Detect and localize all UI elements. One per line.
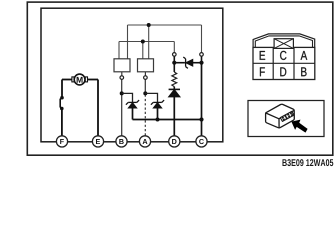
wire: A column circle to junction (144, 79, 146, 93)
terminal E (92, 136, 103, 147)
lower supply rail (119, 41, 174, 43)
wire: branch B junction to zener ZD1 (122, 93, 133, 102)
wire: node D stub circle to junction (173, 56, 175, 63)
wire: D junction to zener ZD3 (174, 62, 185, 64)
junction dot C column (199, 61, 203, 65)
zener diode ZD3 (183, 57, 192, 68)
junction on upper rail (147, 23, 151, 27)
wire: ZD1 to diode bus (132, 108, 134, 120)
wire: branch A junction to zener ZD2 (145, 93, 157, 102)
diode D1 (169, 89, 180, 96)
pin circle node D column (173, 53, 177, 57)
terminal B (116, 136, 127, 147)
upper supply rail (128, 24, 202, 26)
wire: F column lower (61, 109, 63, 136)
terminal D (169, 136, 180, 147)
resistor R (172, 72, 177, 87)
pin letter B (301, 67, 306, 76)
wire: D junction to resistor R (173, 63, 175, 72)
junction dot node A column (143, 91, 147, 95)
relay coil box 2 (138, 59, 154, 72)
wire: B column circle to junction (121, 79, 123, 93)
wire: upper rail drop to node C column (201, 25, 203, 53)
motor brush right (85, 77, 87, 82)
pointer arrow (291, 120, 307, 133)
relay coil box 1 (114, 59, 130, 72)
wire: B column junction to terminal B (121, 93, 123, 135)
terminal F (56, 136, 67, 147)
terminal A (139, 136, 150, 147)
wire: ZD2 to diode bus (157, 108, 159, 120)
junction on lower rail (141, 40, 145, 44)
wire: box2 bottom pin stub (144, 72, 146, 76)
wire: lower rail to relay box 2 left pin (142, 42, 144, 59)
connector keyway (274, 39, 293, 49)
junction dot D column (172, 61, 176, 65)
wire: lower rail to relay box 1 left pin (118, 42, 120, 59)
pin letter D (280, 67, 286, 76)
junction dot bus at C column (199, 117, 203, 121)
wire: diode D1 to terminal D (173, 97, 175, 136)
outer frame (27, 2, 333, 155)
wire: upper rail to relay box 2 right pin (148, 25, 150, 59)
wire: motor left lead (62, 79, 72, 81)
zener diode ZD2 (151, 100, 164, 108)
pin letter A (301, 51, 308, 60)
pin letter F (260, 67, 265, 76)
pin circle node C column (200, 53, 204, 57)
wire: box1 bottom pin stub (121, 72, 123, 76)
motor M (74, 74, 85, 85)
motor brush left (72, 77, 74, 82)
pin circle relay box1 bottom (120, 76, 124, 80)
connector socket face (280, 111, 294, 121)
relay/motor assembly box (41, 8, 223, 142)
connector location box (248, 101, 324, 137)
caption BJE0912WA05 (282, 159, 333, 166)
wire: E column (97, 80, 99, 136)
wire: zener ZD3 to C junction (193, 62, 202, 64)
diode bus wire (133, 119, 202, 121)
wire: upper rail to relay box 1 right pin (127, 25, 129, 59)
wire: C junction to terminal C (201, 63, 203, 136)
switch contacts (60, 96, 64, 100)
pin circle relay box2 bottom (144, 76, 148, 80)
pin letter E (260, 51, 265, 60)
wire: lower rail drop to node D column (173, 42, 175, 53)
wire: resistor to diode D1 (173, 87, 175, 90)
terminal C (196, 136, 207, 147)
wire: motor right lead (88, 79, 99, 81)
zener diode ZD1 (126, 100, 139, 108)
dashed wire: A column junction to terminal A (144, 95, 146, 136)
connector pinout housing (253, 34, 315, 48)
connector pin grid (253, 47, 315, 79)
pin letter C (280, 51, 286, 60)
junction dot bus at ZD2 (156, 118, 160, 122)
connector body icon (266, 104, 295, 128)
wire: node C stub circle to junction (201, 56, 203, 63)
wire: F column upper (61, 80, 63, 98)
junction dot node B column (120, 91, 124, 95)
